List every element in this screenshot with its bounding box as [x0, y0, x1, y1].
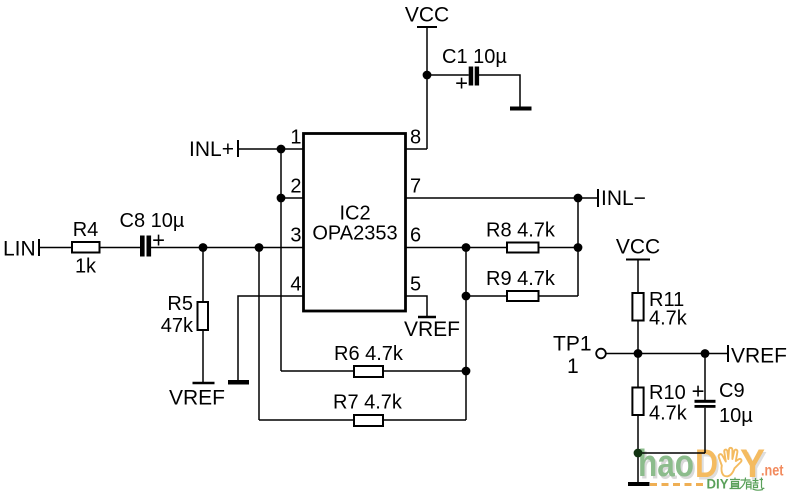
svg-text:DIY: DIY [707, 477, 729, 492]
svg-text:R9 4.7k: R9 4.7k [486, 268, 556, 290]
svg-text:+: + [692, 379, 705, 404]
wire pin 5 to VREF [406, 296, 427, 317]
svg-text:47k: 47k [161, 315, 194, 337]
svg-text:.net: .net [761, 463, 784, 480]
svg-text:8: 8 [410, 127, 421, 149]
svg-text:R10: R10 [649, 382, 686, 404]
junction dot TP1 rail [634, 349, 643, 358]
svg-text:VCC: VCC [616, 236, 660, 259]
wire ground leg bottom right [637, 453, 639, 482]
svg-text:R4: R4 [73, 219, 99, 241]
svg-text:hao: hao [638, 443, 694, 485]
terminal INL- [597, 189, 599, 207]
wire vertical INL- node down to R9 [577, 198, 579, 296]
wire pin 8 stub [406, 148, 427, 150]
watermark dashed line [650, 483, 706, 486]
capacitor C9 [695, 400, 716, 403]
junction dot node A [255, 243, 264, 252]
wire pin 6 through R8 [406, 247, 578, 249]
svg-text:10µ: 10µ [719, 405, 753, 427]
wire vertical R7 to R6/R9/R8 junction [465, 248, 467, 421]
watermark hand icon [719, 448, 742, 477]
wire R7 horizontal [259, 419, 466, 421]
wire vertical pin1-pin2 down to R6 [280, 149, 282, 371]
wire C8 to pin 3 [151, 247, 303, 249]
junction dot R5 top [199, 243, 208, 252]
wire C9 bottom leg [704, 408, 706, 453]
svg-text:+: + [152, 228, 165, 253]
wire LIN to C8 [39, 247, 141, 249]
junction dot R8 right [574, 243, 583, 252]
svg-text:1: 1 [290, 127, 301, 149]
wire INL+ to pin 1 [238, 148, 303, 150]
wire C9 leg [704, 354, 706, 401]
junction dot VCC/C1 [423, 71, 432, 80]
junction dot pin2 [277, 194, 286, 203]
wire R6 horizontal [281, 370, 466, 372]
op-amp IC2 box [304, 134, 406, 312]
svg-text:4.7k: 4.7k [649, 403, 688, 425]
svg-text:VREF: VREF [731, 345, 787, 368]
terminal VREF under pin 5 [418, 316, 436, 319]
wire C1 to ground [479, 75, 520, 107]
resistor R11 [632, 293, 643, 321]
svg-text:R8 4.7k: R8 4.7k [486, 220, 556, 242]
resistor R5 [198, 302, 209, 330]
svg-text:INL−: INL− [601, 187, 646, 210]
svg-text:C9: C9 [719, 380, 745, 402]
watermark chinese characters 真有趣 [730, 478, 765, 491]
junction dot bottom rail [634, 449, 643, 458]
ground for C1 [510, 107, 532, 111]
power VCC top bar [417, 26, 437, 28]
wire R9 horizontal [466, 295, 578, 297]
svg-text:3: 3 [290, 225, 301, 247]
wire node A down to R7 [258, 248, 260, 421]
junction dot R8 left [462, 243, 471, 252]
wire pin 2 stub [281, 197, 303, 199]
test point TP1 [596, 349, 606, 359]
svg-text:1: 1 [567, 355, 579, 378]
junction dot R9 left [462, 292, 471, 301]
wire R5 leg [202, 248, 204, 384]
ground near pin 4 [228, 380, 249, 385]
svg-text:1k: 1k [75, 256, 97, 278]
wire R11 leg [637, 260, 639, 354]
svg-text:4.7k: 4.7k [649, 308, 688, 330]
wire pin 7 to INL- [406, 197, 598, 199]
ground bottom right [628, 482, 650, 486]
terminal INL+ [237, 140, 239, 157]
svg-text:2: 2 [290, 176, 301, 198]
capacitor C8 [140, 236, 145, 257]
wire VCC vertical [426, 27, 428, 149]
capacitor C1 [469, 67, 474, 86]
junction dot pin1/INL+ [277, 145, 286, 154]
svg-text:IC2: IC2 [339, 203, 370, 225]
svg-text:C1 10µ: C1 10µ [442, 46, 507, 68]
svg-text:R6 4.7k: R6 4.7k [334, 343, 404, 365]
resistor R9 [507, 291, 539, 301]
watermark haoDIY logo [638, 442, 784, 492]
terminal VREF right [727, 345, 729, 362]
svg-text:VREF: VREF [404, 318, 460, 341]
svg-text:5: 5 [410, 274, 421, 296]
svg-text:LIN: LIN [3, 238, 36, 261]
terminal VREF left under R5 [193, 382, 215, 385]
wire TP1 rail to VREF [606, 353, 728, 355]
wire bottom rail [638, 452, 705, 454]
resistor R7 [354, 415, 383, 426]
svg-text:R7 4.7k: R7 4.7k [333, 392, 403, 414]
svg-text:VREF: VREF [169, 387, 225, 410]
junction dot R6 right [462, 367, 471, 376]
junction dot C9 top [701, 349, 710, 358]
resistor R8 [507, 243, 539, 253]
resistor R10 [632, 388, 643, 416]
svg-text:+: + [455, 71, 468, 96]
wire pin 4 to ground [238, 296, 303, 380]
svg-text:INL+: INL+ [189, 138, 234, 161]
svg-text:VCC: VCC [405, 4, 449, 27]
svg-text:6: 6 [410, 225, 421, 247]
wire R10 leg [637, 354, 639, 454]
svg-text:OPA2353: OPA2353 [312, 223, 397, 245]
svg-text:R5: R5 [167, 293, 193, 315]
terminal LIN [38, 239, 40, 256]
power VCC right bar [626, 259, 650, 261]
wire VCC to C1 [427, 74, 469, 76]
resistor R6 [354, 366, 383, 377]
resistor R4 [72, 242, 100, 253]
svg-text:4: 4 [290, 274, 301, 296]
svg-text:TP1: TP1 [553, 333, 592, 356]
junction dot INL- [574, 194, 583, 203]
svg-text:7: 7 [410, 176, 421, 198]
